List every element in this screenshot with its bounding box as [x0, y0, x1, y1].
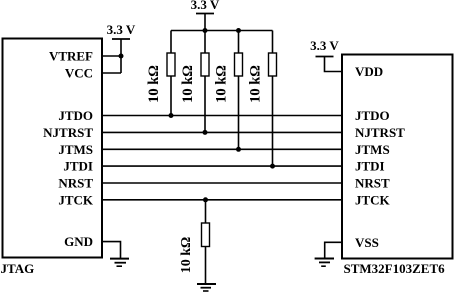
junction dot R2/NJTRST	[203, 130, 208, 135]
power symbol 3.3 V (right, VDD)	[310, 38, 342, 72]
svg-text:JTAG: JTAG	[1, 261, 35, 276]
resistor R5 10k pull-down on JTCK	[202, 200, 210, 284]
svg-text:10 kΩ: 10 kΩ	[146, 65, 162, 103]
svg-text:10 kΩ: 10 kΩ	[248, 65, 264, 103]
wire VCC pin to supply	[102, 72, 121, 74]
svg-text:JTMS: JTMS	[355, 142, 390, 157]
junction dot at VTREF/3.3V	[119, 54, 124, 59]
junction dot bus/R2	[203, 28, 208, 33]
svg-text:JTDI: JTDI	[63, 159, 93, 174]
svg-text:VTREF: VTREF	[49, 49, 93, 64]
svg-text:JTDO: JTDO	[58, 108, 93, 123]
resistor R2 10k pull-up on NJTRST	[201, 31, 209, 133]
wire VSS pin to ground	[325, 242, 342, 258]
svg-text:VSS: VSS	[355, 235, 379, 250]
wire NRST net	[102, 182, 342, 184]
junction dot bus/R3	[236, 28, 241, 33]
power symbol 3.3 V (top middle, pull-up bank)	[191, 0, 220, 30]
svg-text:STM32F103ZET6: STM32F103ZET6	[344, 261, 446, 276]
svg-text:JTDI: JTDI	[355, 159, 385, 174]
power symbol 3.3 V (left, VTREF/VCC)	[107, 22, 136, 73]
svg-text:NJTRST: NJTRST	[43, 125, 93, 140]
resistor R4 10k pull-up on JTDI	[269, 31, 277, 167]
svg-text:NRST: NRST	[58, 176, 93, 191]
svg-text:JTCK: JTCK	[355, 192, 391, 207]
wire 3.3V bus over resistor bank	[171, 30, 273, 32]
ground symbol at JTAG GND	[110, 259, 129, 267]
svg-text:JTCK: JTCK	[58, 192, 94, 207]
svg-text:VCC: VCC	[65, 66, 93, 81]
resistor R1 10k pull-up on JTDO	[167, 31, 175, 116]
svg-text:JTMS: JTMS	[58, 142, 93, 157]
svg-text:JTDO: JTDO	[355, 108, 390, 123]
svg-text:GND: GND	[64, 234, 93, 249]
resistor R3 10k pull-up on JTMS	[235, 31, 243, 150]
wire JTDO net	[102, 115, 342, 117]
junction dot R3/JTMS	[236, 147, 241, 152]
wire NJTRST net	[102, 131, 342, 133]
junction dot R5/JTCK	[203, 197, 208, 202]
svg-text:3.3 V: 3.3 V	[107, 22, 136, 37]
wire GND pin to ground	[102, 242, 121, 259]
svg-text:10 kΩ: 10 kΩ	[179, 237, 194, 274]
wire JTMS net	[102, 148, 342, 150]
svg-text:3.3 V: 3.3 V	[191, 0, 220, 12]
svg-text:3.3 V: 3.3 V	[310, 38, 339, 53]
wire JTDI net	[102, 165, 342, 167]
connector U1 JTAG box	[3, 39, 103, 258]
ground symbol under R5	[197, 284, 216, 291]
wire JTCK net	[102, 199, 342, 201]
junction dot R1/JTDO	[169, 113, 174, 118]
svg-text:10 kΩ: 10 kΩ	[180, 65, 196, 103]
IC U2 STM32F103ZET6 box	[342, 55, 453, 259]
svg-text:VDD: VDD	[355, 64, 383, 79]
svg-text:10 kΩ: 10 kΩ	[214, 65, 230, 103]
junction dot R4/JTDI	[270, 164, 275, 169]
svg-text:NJTRST: NJTRST	[355, 125, 405, 140]
wire VTREF pin to supply	[102, 55, 121, 57]
ground symbol at STM32 VSS	[315, 259, 334, 267]
svg-text:NRST: NRST	[355, 176, 390, 191]
